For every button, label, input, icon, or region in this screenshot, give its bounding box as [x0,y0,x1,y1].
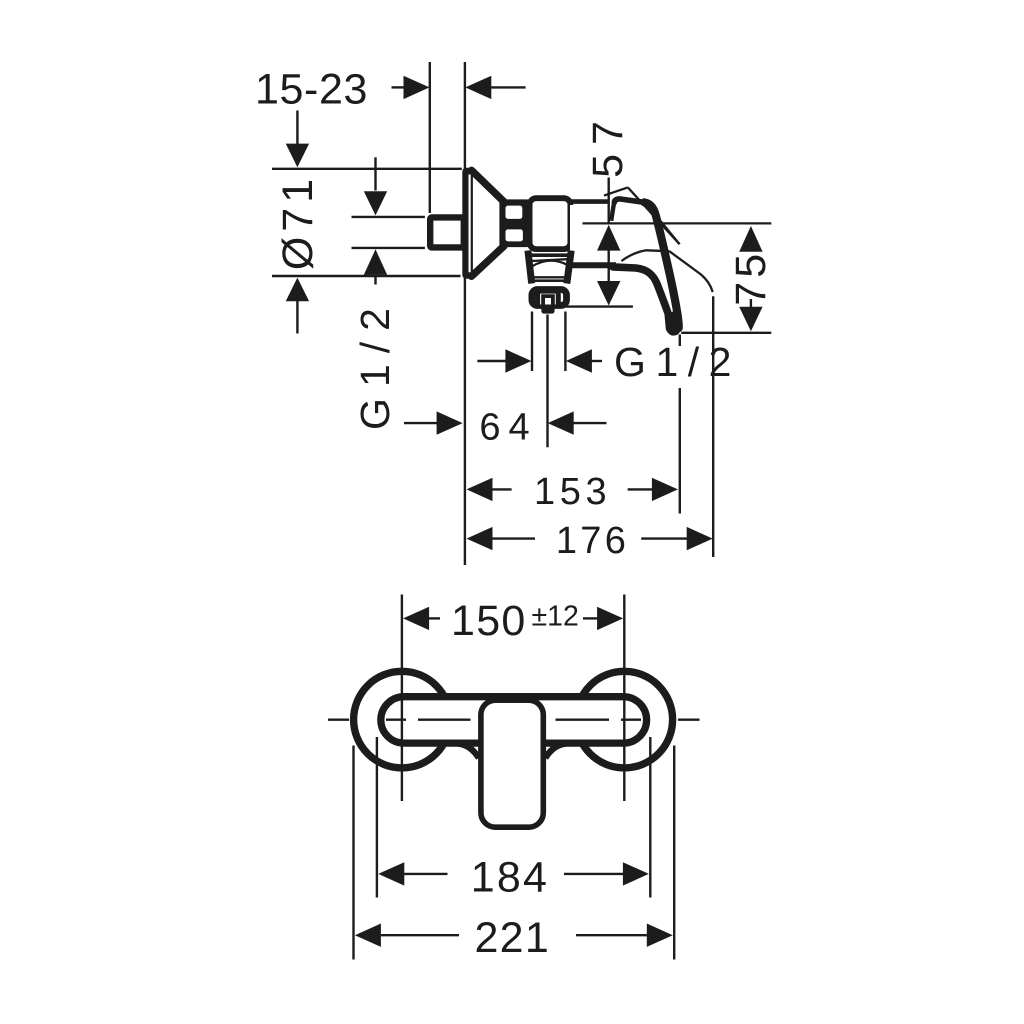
dimension 57 up arrowhead [597,225,620,251]
handle elbow and grip lower edge [613,267,675,329]
dimension Ø71 down arrowhead [286,144,309,168]
dimension Ø71 up arrowhead [286,278,309,302]
centre line dash 4 [556,719,610,721]
extension line 184 left [376,737,378,898]
extension line 221 right [673,746,675,960]
svg-text:184: 184 [471,853,549,901]
dimension 57 upper wire [608,178,610,224]
left wall union circle [354,671,451,768]
centre line dash 2 [386,719,406,721]
outlet collar [532,290,567,306]
dimension 64 right tail wire [574,422,607,424]
extension line under outlet [566,305,633,307]
outlet nipple tab [541,306,554,314]
G1/2 supply dimension upper wire [374,157,376,190]
dimension 64 left-pointing arrowhead [548,411,574,434]
G1/2 outlet left tail wire [477,360,506,362]
dimension 176 right-pointing arrowhead [687,527,713,550]
dimension 221 left tail wire [381,934,459,936]
handle wireframe long diagonal [628,187,680,244]
outlet centre line [546,315,548,448]
cartridge housing bottom edge [569,262,616,268]
extension line H1 top of escutcheon [272,168,462,170]
centre line dash 1 [328,719,349,721]
S-union supply connector block [430,217,464,247]
dimension 176 right tail wire [641,537,687,539]
capsule-handle fillet right [545,743,576,758]
extension line H2b supply union bottom [352,247,425,249]
svg-text:64: 64 [479,406,537,448]
dimension 57 down arrowhead [597,281,620,306]
G1/2 outlet right-pointing arrowhead [505,349,531,372]
handle wireframe lower diagonal [669,251,712,292]
dimension 150 right tail wire [583,617,598,619]
dimension 15-23 right-pointing arrowhead [404,76,430,99]
svg-text:176: 176 [556,520,629,562]
valve body [530,198,571,249]
handle wireframe inner diagonal [649,207,680,245]
escutcheon wall flange bar [462,168,473,279]
outlet G1/2 stub outer [538,291,559,304]
dimension 176 left tail wire [492,537,535,539]
dimension 150 left tail wire [429,617,440,619]
extension line 221 left [352,746,354,960]
G1/2 supply tick below H3 [374,277,376,285]
handle neck left edge [611,203,614,221]
dimension 184 left tail wire [404,873,447,875]
centre line dash 5 [621,719,641,721]
svg-text:75: 75 [727,250,775,306]
outlet taper left edge [528,251,532,284]
escutcheon cone lower edge [472,246,505,276]
capsule-handle fillet left [449,743,479,758]
G1/2 outlet right tail wire [592,360,603,362]
handle grip tip [665,311,681,336]
dimension 176 left-pointing arrowhead [467,527,493,550]
handle front view [481,700,543,827]
dimension 150 left-pointing arrowhead [403,607,429,630]
dimension 221 right tail wire [576,934,647,936]
cartridge housing fill [570,205,613,263]
dimension 75 up arrowhead [739,226,762,252]
dimension Ø71 upper wire [296,111,298,145]
extension line 150 right [623,595,625,802]
outlet chord line [532,259,568,261]
cartridge housing top edge [571,199,610,204]
outlet band line lower [532,279,567,282]
centre axis line of valve [583,222,772,224]
svg-text:Ø71: Ø71 [274,174,322,270]
centre line dash 6 [678,719,700,721]
handle wireframe peak left [604,187,628,195]
svg-text:221: 221 [474,914,550,962]
handle cap edge [614,199,644,203]
extension line 184 right [649,737,651,898]
outlet taper right edge [567,251,571,284]
dimension 64 right-pointing arrowhead [437,411,463,434]
svg-text:G1/2: G1/2 [614,339,741,385]
svg-text:15-23: 15-23 [255,66,368,114]
dimension 184 right tail wire [564,873,623,875]
dimension 75 lower wire [750,299,752,309]
G1/2 supply up arrowhead [364,249,387,275]
dimension 153 left-pointing arrowhead [467,478,493,501]
extension line for 176 [712,296,714,557]
dimension 15-23 right tail wire [491,86,526,88]
connection nut lower window [506,229,523,241]
dimension 153 right-pointing arrowhead [652,478,678,501]
dimension 75 down arrowhead [739,307,762,332]
dimension 57 mid wire [608,250,610,281]
dimension 153 right tail wire [628,488,653,490]
extension line for 153 upper tick [679,335,681,347]
connection nut upper window [506,206,523,219]
outlet joint line [529,253,571,257]
dimension 184 right-pointing arrowhead [623,862,649,885]
svg-text:153: 153 [534,471,611,513]
dimension 221 right-pointing arrowhead [647,924,673,947]
wall extension line V1 [429,62,431,213]
wall extension line V2 [464,62,466,565]
extension line for 153 lower part [679,388,681,514]
svg-text:±12: ±12 [532,600,579,632]
extension line at handle tip level [681,332,771,334]
handle main slant edge [645,202,679,328]
connection nut block [499,199,529,247]
outlet G1/2 stub inner [543,296,553,304]
dimension 150 right-pointing arrowhead [597,607,623,630]
handle wireframe under-curve [621,250,669,261]
escutcheon cone upper edge [472,170,505,202]
outlet band line upper [532,276,568,278]
extension line 150 left [401,595,403,802]
mixer body capsule [381,697,647,743]
dimension 15-23 left-pointing arrowhead [465,76,491,99]
extension line outlet right [564,312,566,372]
centre line dash 3 [418,719,471,721]
extension line outlet left [531,312,533,372]
dimension 15-23 left tail wire [392,86,405,88]
dimension 221 left-pointing arrowhead [355,924,381,947]
extension line H3 bottom of escutcheon [272,275,461,277]
escutcheon flange inner highlight [469,175,471,273]
svg-text:G1/2: G1/2 [352,297,398,430]
svg-text:57: 57 [584,112,632,178]
G1/2 supply down arrowhead [364,191,387,215]
dimension 64 left tail wire [404,422,437,424]
G1/2 outlet left-pointing arrowhead [566,349,592,372]
extension line H2 supply union top [352,216,425,218]
dimension Ø71 lower wire [296,301,298,334]
right wall union circle [576,671,673,768]
dimension 153 left tail wire [492,488,511,490]
dimension 184 left-pointing arrowhead [378,862,404,885]
outlet dome arc [532,261,567,267]
svg-text:150: 150 [451,597,527,645]
